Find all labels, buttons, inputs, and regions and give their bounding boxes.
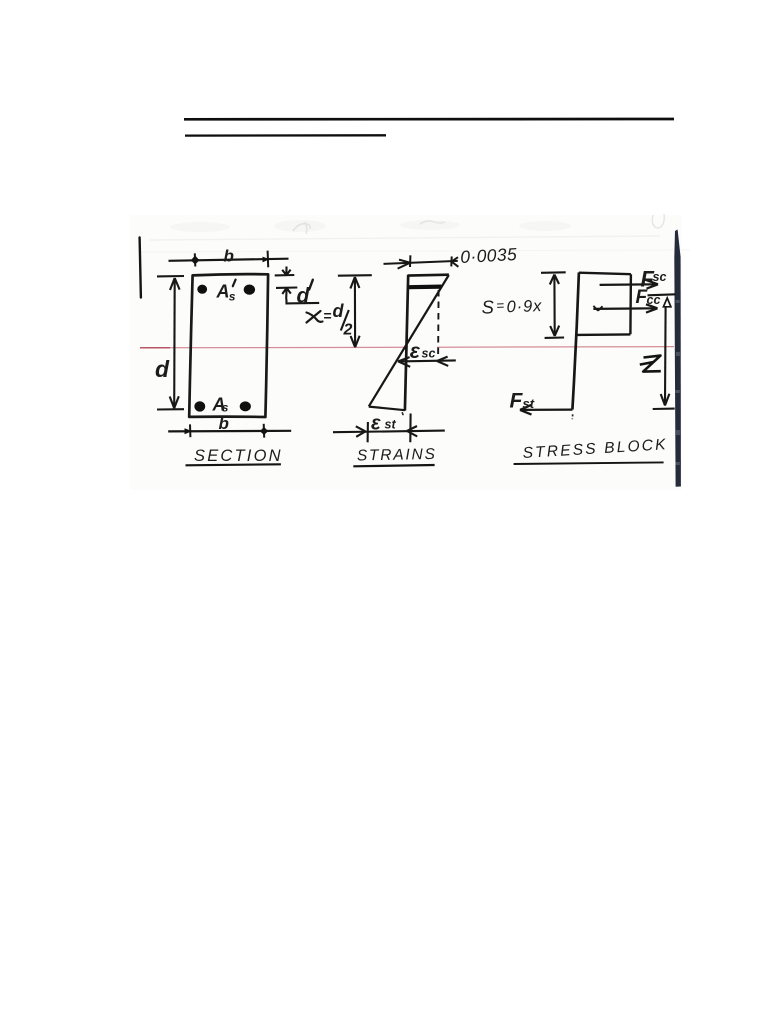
svg-text:STRAINS: STRAINS xyxy=(357,446,437,465)
svg-text:A: A xyxy=(216,282,230,302)
x=d/2 dimension line xyxy=(338,275,372,347)
epsilon-sc dimension arrows xyxy=(398,357,456,367)
left page-edge stroke xyxy=(140,238,141,298)
label epsilon-st xyxy=(371,413,396,435)
stress block left vertical xyxy=(572,272,579,409)
stress block right edge xyxy=(629,274,632,334)
right page-edge dark bar xyxy=(674,230,681,487)
d dimension line xyxy=(157,276,184,410)
svg-text:0·9x: 0·9x xyxy=(506,297,542,316)
heavy compression-steel strain bar xyxy=(409,285,442,290)
label Fsc xyxy=(641,267,667,292)
svg-text:d: d xyxy=(333,301,345,321)
svg-text:b: b xyxy=(219,414,229,433)
strain bottom edge xyxy=(369,407,405,411)
0.0035 dimension line xyxy=(384,255,459,268)
svg-text:0·0035: 0·0035 xyxy=(460,244,518,267)
svg-text:s: s xyxy=(229,290,236,304)
top b dim arrow blobs xyxy=(191,256,200,265)
label Fcc xyxy=(636,287,661,308)
svg-text:s: s xyxy=(222,401,229,415)
bottom b dimension line xyxy=(168,424,291,438)
SECTION underline xyxy=(186,464,281,465)
stress block top edge xyxy=(579,273,631,275)
epsilon-st dimension line xyxy=(333,414,445,443)
svg-text:ε: ε xyxy=(410,340,421,363)
svg-text:b: b xyxy=(224,247,234,266)
Fst arrow line xyxy=(520,405,573,415)
section outline rectangle xyxy=(189,274,268,417)
svg-text:ε: ε xyxy=(371,413,381,435)
red neutral-axis line xyxy=(140,347,674,348)
rebar As' right xyxy=(244,285,255,295)
d' dimension xyxy=(275,267,320,304)
label As xyxy=(212,395,229,415)
Z dimension line xyxy=(648,294,676,409)
svg-text:st: st xyxy=(523,396,535,411)
svg-text:SECTION: SECTION xyxy=(194,447,283,465)
S=0.9x dimension line xyxy=(541,272,566,338)
strain top edge xyxy=(408,273,449,276)
strain axis vertical xyxy=(405,275,408,411)
bottom b dim arrow blobs xyxy=(185,428,193,434)
top b dimension line xyxy=(169,251,289,268)
rebar As' left xyxy=(197,285,207,294)
label As' xyxy=(216,280,236,304)
strain diagonal xyxy=(369,275,449,406)
svg-text:d: d xyxy=(155,356,170,382)
rebar As right xyxy=(240,401,251,411)
dashed line from top corner xyxy=(437,290,440,358)
svg-text:F: F xyxy=(510,390,524,413)
svg-text:st: st xyxy=(385,418,397,432)
svg-text:=: = xyxy=(324,308,332,324)
STRAINS underline xyxy=(353,465,434,466)
title underline 1 xyxy=(184,118,674,121)
label Z xyxy=(640,356,661,372)
svg-text:=: = xyxy=(496,298,505,313)
STRESS BLOCK underline xyxy=(514,462,664,464)
label d' xyxy=(297,280,313,308)
svg-text:d: d xyxy=(297,285,311,308)
Fcc arrow xyxy=(593,304,657,312)
svg-text:S: S xyxy=(481,296,495,317)
svg-text:sc: sc xyxy=(422,347,436,361)
title underline 2 xyxy=(185,134,386,137)
svg-text:2: 2 xyxy=(343,322,353,339)
label S=0.9x xyxy=(481,295,542,318)
stress block bottom edge xyxy=(577,333,631,336)
faint scan smudge band xyxy=(170,220,571,232)
svg-text:sc: sc xyxy=(653,270,667,284)
label epsilon-sc xyxy=(410,340,436,363)
Fsc arrow xyxy=(600,280,658,288)
label Fst xyxy=(510,390,535,413)
rebar As left xyxy=(194,401,205,411)
label x=d/2 xyxy=(307,301,353,339)
